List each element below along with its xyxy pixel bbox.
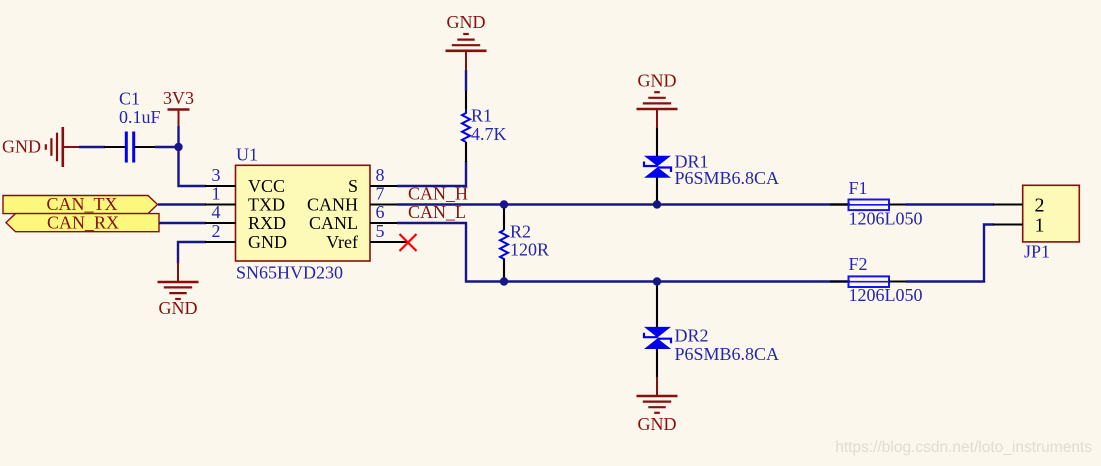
svg-text:2: 2 bbox=[1035, 195, 1045, 217]
pin 5 Vref bbox=[326, 221, 407, 252]
svg-text:P6SMB6.8CA: P6SMB6.8CA bbox=[675, 168, 780, 188]
svg-text:2: 2 bbox=[212, 221, 221, 241]
svg-text:GND: GND bbox=[2, 137, 41, 157]
svg-text:JP1: JP1 bbox=[1024, 242, 1050, 262]
wire 3V3 to junction bbox=[177, 126, 179, 147]
wire CAN_H net bbox=[397, 203, 850, 205]
wire F2 up to JP1 pin 1 bbox=[906, 225, 994, 282]
svg-text:0.1uF: 0.1uF bbox=[119, 107, 161, 127]
svg-text:1: 1 bbox=[212, 184, 221, 204]
wire CAN_RX to pin 4 bbox=[159, 222, 206, 224]
pin 7 CANH bbox=[307, 184, 398, 215]
svg-text:3: 3 bbox=[212, 165, 221, 185]
svg-text:6: 6 bbox=[376, 202, 385, 222]
svg-text:1206L050: 1206L050 bbox=[849, 209, 923, 229]
svg-text:DR2: DR2 bbox=[675, 326, 709, 346]
wire CAN_L net bbox=[397, 223, 850, 282]
IC U1 SN65HVD230 bbox=[236, 145, 371, 283]
ground GND (left, at C1) bbox=[2, 127, 80, 167]
junction CAN_L at R2 bbox=[500, 277, 508, 285]
fuse F2 1206L050 bbox=[830, 254, 923, 305]
port CAN_RX bbox=[6, 213, 159, 233]
net label CAN_L bbox=[408, 202, 466, 222]
svg-text:1: 1 bbox=[1035, 215, 1045, 237]
svg-text:CAN_RX: CAN_RX bbox=[47, 213, 119, 233]
svg-text:GND: GND bbox=[248, 232, 287, 252]
junction CAN_H at R2 bbox=[500, 200, 508, 208]
svg-text:4.7K: 4.7K bbox=[471, 124, 507, 144]
svg-text:7: 7 bbox=[376, 184, 385, 204]
svg-text:VCC: VCC bbox=[248, 176, 285, 196]
TVS diode DR1 P6SMB6.8CA bbox=[644, 127, 779, 205]
ground GND (top, above R1) bbox=[446, 12, 487, 70]
junction CAN_L at DR2 bbox=[653, 277, 661, 285]
pin 1 of JP1 bbox=[993, 215, 1045, 237]
wire GND to C1 bbox=[79, 146, 105, 148]
wire CAN_TX to pin 1 bbox=[158, 203, 206, 205]
svg-text:3V3: 3V3 bbox=[163, 88, 194, 108]
svg-text:SN65HVD230: SN65HVD230 bbox=[236, 263, 343, 283]
svg-text:GND: GND bbox=[638, 71, 677, 91]
svg-text:R2: R2 bbox=[510, 222, 531, 242]
svg-text:CAN_TX: CAN_TX bbox=[47, 194, 118, 214]
watermark bbox=[835, 439, 1092, 456]
net label CAN_H bbox=[408, 184, 468, 204]
ground GND (below DR2) bbox=[637, 377, 678, 434]
port CAN_TX bbox=[3, 194, 158, 214]
svg-text:TXD: TXD bbox=[248, 195, 285, 215]
svg-text:U1: U1 bbox=[236, 145, 258, 165]
wire F1 to JP1 pin 2 bbox=[906, 203, 994, 205]
svg-text:CANH: CANH bbox=[307, 195, 358, 215]
svg-text:GND: GND bbox=[447, 12, 486, 32]
junction at C1/3V3 node bbox=[174, 143, 182, 151]
wire pin 2 to ground bbox=[178, 242, 206, 264]
TVS diode DR2 P6SMB6.8CA bbox=[644, 282, 779, 379]
svg-text:Vref: Vref bbox=[326, 232, 358, 252]
pin 8 S bbox=[348, 165, 398, 196]
svg-text:4: 4 bbox=[212, 202, 221, 222]
svg-text:GND: GND bbox=[638, 414, 677, 434]
wire C1 to junction bbox=[155, 146, 179, 148]
pin 4 RXD bbox=[205, 202, 286, 233]
wire pin 8 up to R1 bbox=[397, 161, 466, 186]
svg-text:RXD: RXD bbox=[248, 213, 286, 233]
capacitor C1 0.1uF bbox=[104, 89, 161, 163]
pin 6 CANL bbox=[309, 202, 398, 233]
svg-text:C1: C1 bbox=[119, 89, 140, 109]
pin 2 of JP1 bbox=[993, 195, 1045, 217]
connector JP1 bbox=[1023, 185, 1080, 261]
svg-text:R1: R1 bbox=[471, 106, 492, 126]
pin 2 GND bbox=[205, 221, 287, 252]
svg-text:P6SMB6.8CA: P6SMB6.8CA bbox=[675, 344, 780, 364]
wire junction to pin 3 bbox=[179, 146, 207, 186]
svg-text:F2: F2 bbox=[849, 254, 868, 274]
resistor R2 120R bbox=[500, 205, 549, 282]
wire R1 to GND bbox=[465, 70, 467, 91]
svg-text:https://blog.csdn.net/loto_ins: https://blog.csdn.net/loto_instruments bbox=[835, 439, 1092, 456]
pin 1 TXD bbox=[205, 184, 285, 215]
svg-text:8: 8 bbox=[376, 165, 385, 185]
pin 3 VCC bbox=[205, 165, 285, 196]
svg-text:GND: GND bbox=[159, 298, 198, 318]
svg-text:1206L050: 1206L050 bbox=[849, 285, 923, 305]
junction CAN_H at DR1 bbox=[653, 200, 661, 208]
ground GND (above DR1) bbox=[637, 71, 678, 129]
svg-text:5: 5 bbox=[376, 221, 385, 241]
svg-text:120R: 120R bbox=[510, 240, 549, 260]
ground GND (below U1) bbox=[158, 263, 199, 319]
resistor R1 4.7K bbox=[462, 90, 507, 162]
no-connect X on pin 5 bbox=[400, 234, 417, 251]
fuse F1 1206L050 bbox=[830, 178, 923, 229]
svg-text:S: S bbox=[348, 176, 358, 196]
svg-text:CANL: CANL bbox=[309, 213, 358, 233]
power port 3V3 bbox=[163, 88, 194, 127]
svg-text:F1: F1 bbox=[849, 178, 868, 198]
